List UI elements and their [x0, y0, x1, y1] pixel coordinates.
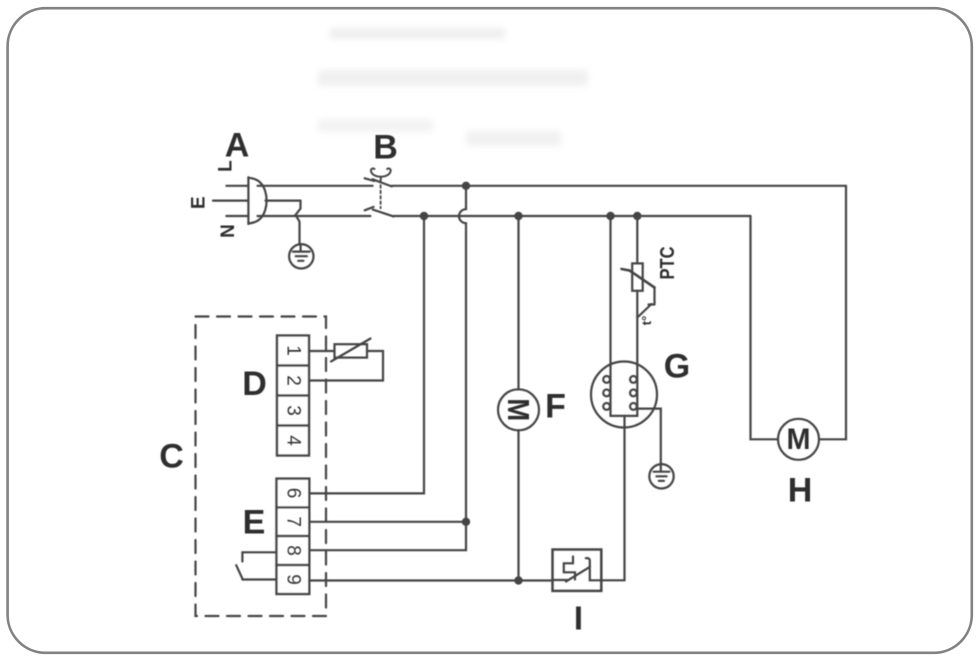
svg-text:L: L: [216, 160, 237, 172]
motor F circle: [498, 389, 539, 430]
svg-text:7: 7: [283, 516, 304, 527]
svg-text:4: 4: [283, 435, 304, 446]
terminal D numbers: [283, 345, 304, 446]
dashed enclosure C: [196, 317, 327, 617]
svg-text:B: B: [373, 128, 398, 166]
svg-text:H: H: [788, 471, 813, 509]
wire: resistor back to terminal 2: [309, 351, 383, 381]
node: junction dot bus x424: [421, 213, 427, 219]
svg-text:M: M: [787, 423, 811, 456]
svg-text:I: I: [574, 600, 583, 637]
plug A: [248, 177, 266, 224]
wire: L net right vertical down to motor H: [819, 186, 846, 439]
svg-text:E: E: [189, 196, 210, 209]
wire: compressor to earth: [637, 409, 661, 465]
terminal E numbers: [283, 488, 304, 585]
wire N from plug to switch B: [226, 215, 370, 217]
terminal block E: [277, 479, 310, 594]
wire: terminal 7 to junction: [309, 521, 466, 523]
wire: dropper to PTC: [636, 216, 638, 263]
svg-text:D: D: [242, 365, 267, 403]
svg-text:1: 1: [283, 345, 304, 356]
PTC thermistor: [622, 263, 655, 290]
svg-text:A: A: [225, 127, 250, 165]
wire E jog down to ground: [296, 201, 301, 245]
compressor G internal windings: [603, 376, 637, 416]
node: junction dot bus x518: [515, 213, 521, 219]
node: junction dot bottom net: [515, 577, 521, 583]
node: junction dot terminal7 wire: [463, 519, 469, 525]
door switch at terminals 8/9: [236, 552, 276, 579]
svg-text:C: C: [159, 437, 184, 475]
compressor G circle: [591, 362, 657, 428]
PTC label: [657, 247, 679, 280]
wire E into plug: [213, 200, 301, 202]
svg-text:F: F: [545, 387, 566, 425]
thermal protector I box: [553, 550, 602, 591]
wire L from plug to switch B: [226, 185, 372, 187]
node: junction dot top line x466: [463, 183, 469, 189]
ground earth symbol under plug: [289, 244, 313, 268]
wire: motor F down to bottom net: [517, 430, 519, 580]
svg-text:G: G: [664, 348, 690, 386]
node: junction dot bus x637: [634, 213, 640, 219]
svg-text:N: N: [218, 224, 239, 238]
thermal contact t deg: [637, 288, 654, 318]
svg-text:PTC: PTC: [657, 247, 679, 280]
svg-text:2: 2: [283, 375, 304, 386]
ground earth symbol under G: [649, 464, 673, 488]
wire: dropper to motor F: [517, 216, 519, 389]
svg-text:6: 6: [283, 488, 304, 499]
svg-text:3: 3: [283, 405, 304, 416]
svg-text:E: E: [243, 504, 266, 542]
wire: compressor centre tap down to protector I: [601, 416, 624, 580]
wire: PTC to compressor G right pin: [636, 291, 638, 416]
switch B (double-pole): [365, 168, 394, 216]
svg-text:8: 8: [283, 545, 304, 556]
motor F letter M: [501, 398, 536, 421]
wire: dropper from L line with hop over bus, down to terminals 7/8: [309, 186, 466, 550]
wire: dropper to compressor G left pin: [609, 216, 611, 416]
wire: dropper to terminal 6: [309, 216, 424, 493]
svg-text:M: M: [501, 398, 536, 421]
wire: top L net from switch to right corner: [392, 185, 846, 187]
wire: bottom net terminal9 to protector I: [309, 579, 552, 581]
motor H circle: [778, 419, 819, 460]
wire: terminal 1 to resistor: [309, 350, 335, 352]
wire: N bus from switch to right: [394, 215, 751, 217]
svg-text:t°: t°: [639, 316, 654, 326]
resistor (defrost heater): [331, 339, 371, 362]
motor H letter M: [787, 423, 811, 456]
t deg label: [639, 316, 654, 326]
terminal block D: [277, 336, 309, 456]
node: junction dot bus x610: [607, 213, 613, 219]
svg-text:9: 9: [283, 574, 304, 585]
wire: N bus vertical down to motor H: [751, 216, 779, 439]
